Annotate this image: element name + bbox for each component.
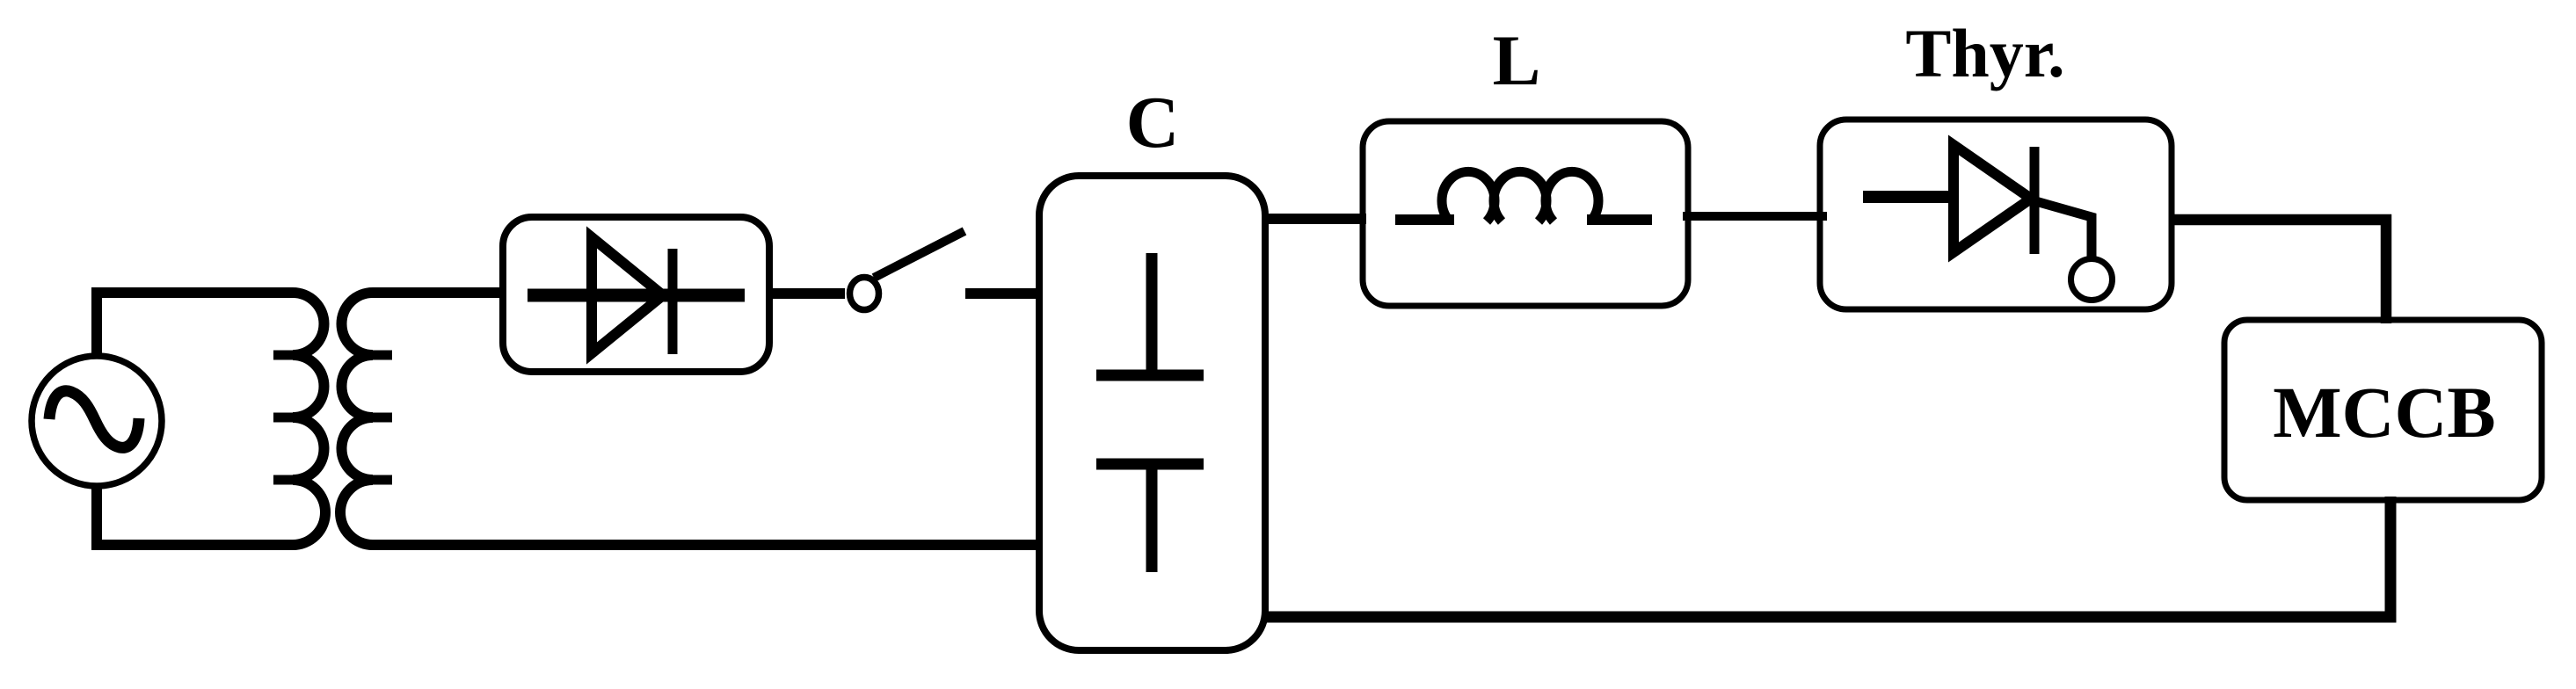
- diode D1 cathode bar: [668, 249, 678, 354]
- wire diode box to switch: [769, 288, 845, 299]
- switch S1 pivot circle: [850, 278, 879, 310]
- wire capacitor box to L box: [1263, 214, 1366, 224]
- transformer T1 secondary cusp tick 1: [367, 351, 392, 360]
- capacitor C1 top plate: [1096, 370, 1204, 381]
- capacitor box outline: [1039, 176, 1265, 650]
- inductor L1 left lead: [1395, 214, 1454, 225]
- transformer T1 primary cusp tick 1: [273, 351, 299, 360]
- wire L box to thyristor box: [1683, 212, 1827, 221]
- thyristor Q1 gate terminal circle: [2071, 259, 2113, 301]
- inductor L1 right lead: [1587, 214, 1652, 225]
- svg-text:C: C: [1126, 82, 1180, 163]
- inductor box outline: [1363, 121, 1688, 306]
- MCCB box outline: [2224, 320, 2542, 500]
- transformer T1 secondary winding + wire to diode box and bottom wire to capacitor box: [340, 293, 1043, 545]
- transformer T1 primary winding + left loop wire: [97, 293, 325, 545]
- thyristor box outline: [1820, 120, 2172, 309]
- diode D1 lead: [528, 289, 745, 302]
- switch S1 blade: [874, 231, 964, 278]
- wire MCCB box bottom return to capacitor box: [1263, 497, 2390, 617]
- inductor L1 hump 2: [1494, 171, 1546, 221]
- transformer T1 primary cusp tick 2: [273, 413, 299, 423]
- capacitor C1 bottom lead: [1146, 464, 1158, 572]
- thyristor Q1 triangle: [1954, 145, 2031, 252]
- thyristor Q1 anode lead: [1863, 191, 1954, 203]
- transformer T1 primary cusp tick 3: [273, 475, 299, 485]
- inductor L1 hump 3: [1546, 171, 1598, 221]
- diode box outline: [503, 217, 769, 372]
- transformer T1 secondary cusp tick 2: [367, 413, 392, 423]
- AC source V1: [32, 356, 162, 486]
- inductor L1 hump 1: [1442, 171, 1495, 221]
- diode D1 triangle: [592, 237, 663, 353]
- svg-text:Thyr.: Thyr.: [1905, 15, 2064, 91]
- transformer T1 secondary cusp tick 3: [367, 475, 392, 485]
- capacitor C1 top lead: [1146, 253, 1158, 375]
- wire switch to capacitor box: [965, 288, 1043, 299]
- thyristor Q1 cathode bar: [2030, 147, 2040, 254]
- thyristor Q1 gate lead: [2033, 200, 2092, 258]
- svg-text:L: L: [1493, 20, 1541, 100]
- wire thyristor box to MCCB box: [2170, 220, 2386, 323]
- capacitor C1 bottom plate: [1096, 459, 1204, 470]
- svg-text:MCCB: MCCB: [2273, 372, 2496, 453]
